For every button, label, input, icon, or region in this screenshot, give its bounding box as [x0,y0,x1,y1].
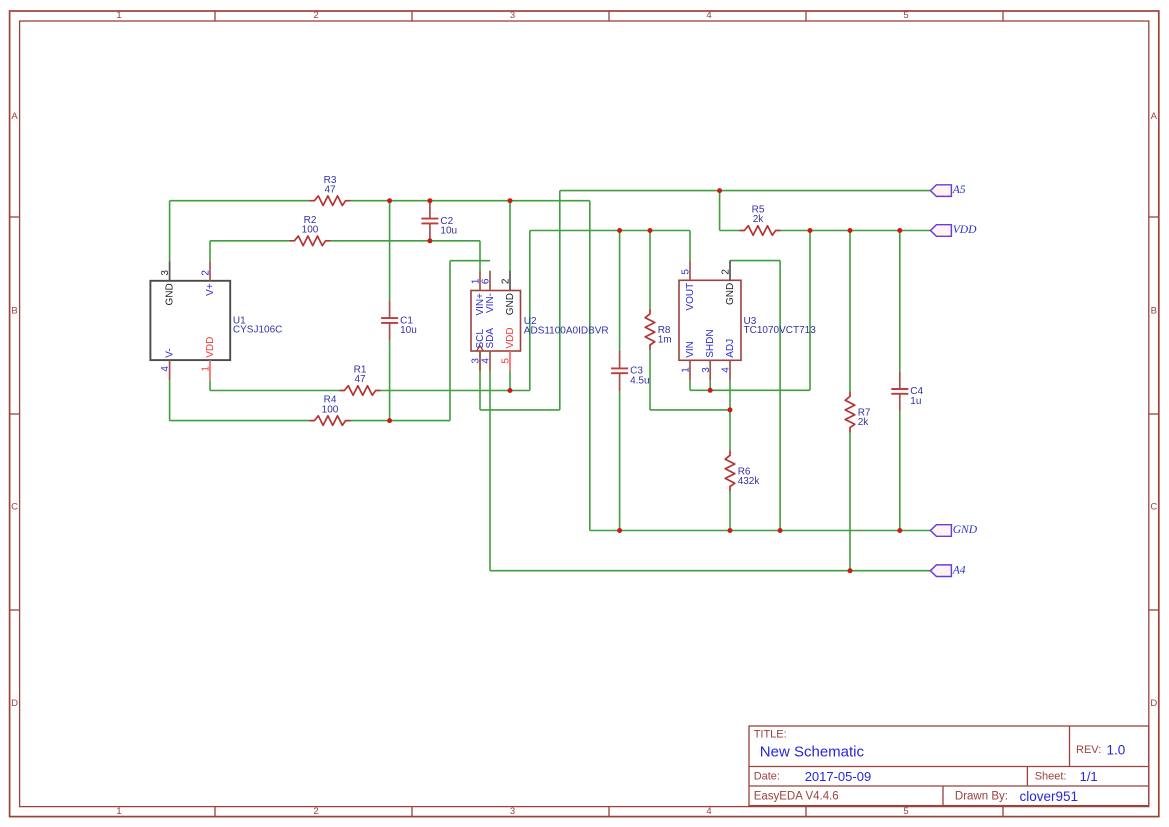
svg-text:A4: A4 [952,563,966,576]
junction [728,528,733,533]
wire U2 pin6 horizontal [450,260,490,262]
svg-text:47: 47 [354,374,366,385]
resistor R7 [845,392,871,433]
wire U3 pin4 drop [729,381,731,410]
wire U3 pin2 horizontal [730,260,780,262]
svg-text:4: 4 [481,358,492,364]
wire VDD-VIN vertical [809,231,811,391]
wire GND-net vertical [589,201,591,531]
U2 pin 6 VIN- [481,271,496,313]
svg-text:GND: GND [725,283,736,305]
junction [427,198,432,203]
wire U1 pin3 riser [169,201,171,262]
capacitor C4 [891,371,923,411]
wire SCL horizontal [480,409,560,411]
svg-text:100: 100 [322,404,339,415]
junction [728,407,733,412]
svg-text:TC1070VCT713: TC1070VCT713 [744,325,817,336]
U2 pin 1 VIN+ [471,271,486,316]
wire R6 bottom vertical [729,491,731,530]
svg-text:GND: GND [164,283,175,305]
junction [617,528,622,533]
svg-text:1u: 1u [910,396,921,407]
wire R7 bottom vertical [849,433,851,571]
svg-text:A: A [1151,111,1158,122]
resistor R4 [310,395,351,426]
wire R1 right segment [381,390,530,392]
svg-text:432k: 432k [738,476,761,487]
junction [897,228,902,233]
capacitor C2 [421,201,457,241]
svg-text:2k: 2k [858,417,870,428]
junction [508,388,513,393]
IC U2 ADS1100A0IDBVR body [471,291,609,352]
svg-text:2017-05-09: 2017-05-09 [805,769,872,784]
resistor R2 [290,215,331,246]
svg-text:5: 5 [681,269,692,275]
wire U3-GND vertical [779,261,781,531]
U2 pin 4 SDA [481,328,496,371]
svg-text:VDD: VDD [505,327,516,348]
svg-text:1.0: 1.0 [1107,742,1126,757]
svg-text:4: 4 [160,366,171,372]
wire U3 pin3 drop [709,381,711,391]
svg-text:1m: 1m [658,335,672,346]
U3 pin 1 VIN [681,341,696,381]
svg-text:GND: GND [953,523,978,536]
wire U2 pin2 riser [509,201,511,271]
resistor R6 [725,450,760,491]
svg-text:SHDN: SHDN [705,329,716,357]
resistor R5 [740,205,781,236]
svg-text:6: 6 [481,278,492,284]
wire A5-R5 vertical [719,191,721,231]
wire U1 pin1 drop [209,380,211,390]
svg-text:C: C [11,502,18,513]
wire SCL drop [479,351,481,410]
wire VDD-U2 vertical [529,231,531,391]
U1 pin 2 V+ [201,261,216,296]
junction [648,228,653,233]
svg-text:2: 2 [313,806,318,817]
svg-text:VIN: VIN [685,341,696,358]
svg-text:3: 3 [510,10,515,21]
junction [897,528,902,533]
resistor R1 [340,365,381,396]
wire VIN- vertical [449,261,451,421]
net flag GND [930,523,977,536]
svg-text:New Schematic: New Schematic [760,744,865,761]
svg-text:VIN-: VIN- [485,293,496,313]
U3 pin 2 GND [721,260,736,305]
wire R3 net left segment [170,200,310,202]
svg-text:D: D [11,698,18,709]
wire R7 top vertical [849,231,851,392]
wire GND horizontal [590,530,931,532]
IC U1 CYSJ106C body [150,281,282,360]
svg-text:1: 1 [681,367,692,373]
svg-text:REV:: REV: [1076,744,1101,756]
svg-text:Sheet:: Sheet: [1035,770,1067,782]
wire R4 left segment [170,420,310,422]
U1 pin 1 VDD [201,337,216,381]
junction [848,228,853,233]
wire U3 pin5 riser [689,231,691,261]
wire U2 pin5 drop [509,371,511,391]
U3 pin 3 SHDN [701,329,716,380]
U3 pin 5 VOUT [681,260,696,310]
wire A5 horizontal [560,190,931,192]
svg-text:1: 1 [201,366,212,372]
wire SDA vertical [489,371,491,571]
svg-text:EasyEDA V4.4.6: EasyEDA V4.4.6 [754,790,839,802]
svg-text:CYSJ106C: CYSJ106C [233,325,282,336]
wire R1 left segment [210,390,340,392]
wire R5 left segment [720,230,740,232]
wire VDD horizontal [781,230,931,232]
svg-text:4: 4 [706,806,711,817]
net flag A5 [930,183,965,196]
junction [617,228,622,233]
svg-text:2k: 2k [753,214,765,225]
svg-text:C: C [1150,502,1157,513]
wire A4 horizontal [490,570,930,572]
U1 pin 4 V- [160,348,175,380]
svg-text:2: 2 [313,10,318,21]
wire R8 top vertical [649,231,651,309]
wire C1 bottom lead net [389,341,391,421]
svg-text:2: 2 [501,278,512,284]
resistor R8 [645,309,671,350]
svg-text:B: B [11,306,17,317]
junction [708,388,713,393]
wire SCL-A5 vertical [559,191,561,410]
svg-text:3: 3 [701,367,712,373]
svg-text:47: 47 [324,184,336,195]
svg-text:VOUT: VOUT [685,283,696,311]
svg-text:A5: A5 [952,183,966,196]
svg-text:1: 1 [116,10,121,21]
svg-text:100: 100 [302,225,319,236]
resistor R3 [310,175,351,206]
wire R4 right segment [351,420,451,422]
wire R6 top vertical [729,410,731,451]
svg-text:10u: 10u [400,325,417,336]
svg-text:5: 5 [903,806,908,817]
wire C3 top vertical [619,231,621,351]
svg-text:4: 4 [721,367,732,373]
svg-text:2: 2 [721,269,732,275]
capacitor C1 [381,300,417,340]
U3 pin 4 ADJ [721,339,736,381]
svg-text:VDD: VDD [953,223,977,236]
U2 pin 5 VDD [501,327,516,371]
net flag VDD [930,223,977,236]
svg-text:A: A [11,111,18,122]
wire VDD-U2 horizontal [530,230,690,232]
svg-text:5: 5 [501,358,512,364]
svg-text:4: 4 [706,10,711,21]
junction [387,418,392,423]
wire U2 pin1 riser [479,241,481,271]
U2 pin 3 SCL [471,329,486,371]
svg-text:Drawn By:: Drawn By: [955,790,1008,802]
U2 pin 2 GND [501,271,516,316]
wire C3 bottom vertical [619,391,621,531]
svg-text:4.5u: 4.5u [630,376,649,387]
wire U3 pin1 drop [689,381,691,391]
svg-text:3: 3 [510,806,515,817]
svg-text:ADJ: ADJ [725,339,736,358]
svg-text:V+: V+ [205,283,216,296]
wire U1 pin2 riser [209,241,211,261]
wire ADJ horizontal [650,409,730,411]
svg-text:3: 3 [160,270,171,276]
junction [848,568,853,573]
junction [508,198,513,203]
wire R3 to GND-net segment [351,200,590,202]
svg-text:Date:: Date: [754,770,780,782]
wire C4 bottom vertical [899,412,901,531]
svg-text:SDA: SDA [485,328,496,349]
svg-text:1: 1 [116,806,121,817]
svg-text:ADS1100A0IDBVR: ADS1100A0IDBVR [524,325,609,336]
svg-text:B: B [1151,306,1157,317]
junction [778,528,783,533]
junction [387,198,392,203]
wire U1 pin4 drop [169,380,171,420]
wire VIN horizontal [690,389,810,391]
svg-text:GND: GND [505,293,516,315]
capacitor C3 [611,351,649,391]
wire C1 top lead net [389,201,391,301]
title block [749,726,1149,806]
svg-text:2: 2 [201,270,212,276]
svg-text:TITLE:: TITLE: [754,729,787,741]
svg-text:1/1: 1/1 [1080,769,1098,784]
net flag A4 [930,563,965,576]
wire R2 right segment [331,240,481,242]
IC U3 TC1070VCT713 body [679,280,816,360]
svg-text:V-: V- [164,348,175,357]
svg-text:10u: 10u [440,226,457,237]
U1 pin 3 GND [160,261,175,305]
svg-text:clover951: clover951 [1020,789,1079,804]
svg-text:VDD: VDD [205,337,216,358]
junction [717,188,722,193]
junction [808,228,813,233]
svg-text:D: D [1150,698,1157,709]
wire R8 bottom vertical [649,350,651,410]
svg-text:5: 5 [903,10,908,21]
junction [427,238,432,243]
wire C4 top vertical [899,231,901,372]
wire R2 left segment [210,240,290,242]
